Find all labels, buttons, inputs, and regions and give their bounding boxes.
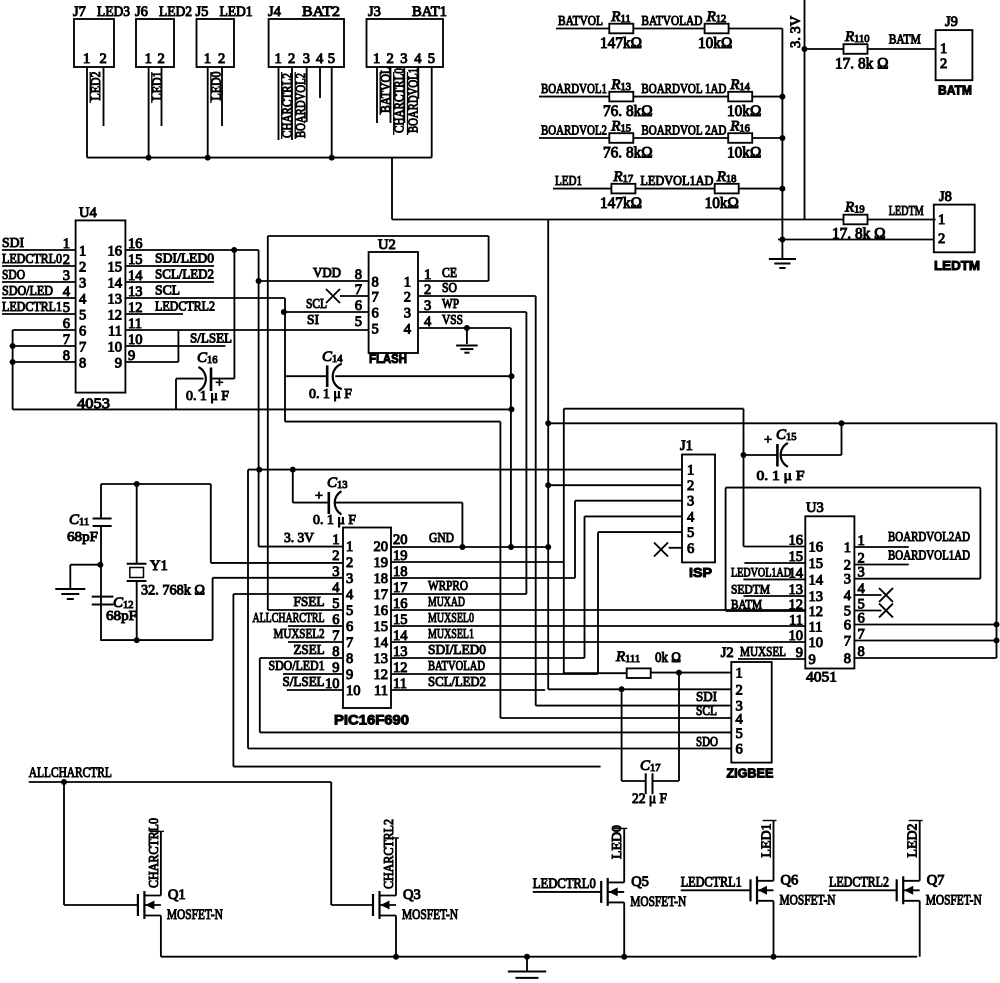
svg-text:MUXSEL2: MUXSEL2 <box>274 626 325 641</box>
svg-text:ISP: ISP <box>689 565 712 580</box>
svg-text:SDO: SDO <box>2 267 25 282</box>
svg-text:6: 6 <box>372 306 379 322</box>
svg-text:2: 2 <box>736 682 743 698</box>
svg-text:2: 2 <box>940 56 947 72</box>
svg-text:0. 1 μ F: 0. 1 μ F <box>186 389 229 404</box>
svg-text:4: 4 <box>404 322 412 338</box>
svg-text:LEDCTRL0: LEDCTRL0 <box>533 876 596 892</box>
svg-text:7: 7 <box>372 290 379 306</box>
svg-text:13: 13 <box>809 589 824 605</box>
svg-text:1: 1 <box>83 51 90 67</box>
svg-text:BOARDVOL2AD: BOARDVOL2AD <box>888 529 970 544</box>
svg-text:6: 6 <box>687 541 694 557</box>
svg-text:SO: SO <box>442 280 457 295</box>
svg-text:19: 19 <box>374 555 389 571</box>
svg-text:GND: GND <box>429 530 454 545</box>
svg-text:FSEL: FSEL <box>294 594 325 609</box>
svg-text:147kΩ: 147kΩ <box>600 195 642 212</box>
svg-text:BAT1: BAT1 <box>412 4 447 20</box>
svg-text:LED1: LED1 <box>760 824 775 858</box>
svg-text:2: 2 <box>387 51 394 67</box>
svg-text:LED0: LED0 <box>210 72 225 101</box>
svg-text:0k Ω: 0k Ω <box>655 650 681 666</box>
svg-text:MUXAD: MUXAD <box>428 594 465 609</box>
svg-text:BATVOL: BATVOL <box>558 13 603 28</box>
svg-text:11: 11 <box>809 620 823 636</box>
svg-text:9: 9 <box>809 652 816 668</box>
svg-text:0. 1 μ F: 0. 1 μ F <box>309 387 352 402</box>
svg-text:1: 1 <box>940 41 947 57</box>
svg-text:147kΩ: 147kΩ <box>600 35 642 52</box>
svg-text:SDI/LED0: SDI/LED0 <box>155 251 214 266</box>
svg-text:6: 6 <box>79 324 86 340</box>
svg-text:LED2: LED2 <box>89 72 104 101</box>
svg-text:LEDCTRL1: LEDCTRL1 <box>2 299 62 314</box>
svg-text:5: 5 <box>736 726 743 742</box>
svg-text:SDO/LED1: SDO/LED1 <box>269 658 325 673</box>
svg-text:MOSFET-N: MOSFET-N <box>167 907 223 923</box>
svg-text:SCL: SCL <box>155 283 180 298</box>
svg-text:14: 14 <box>374 635 389 651</box>
svg-text:SDO: SDO <box>696 734 718 749</box>
svg-text:3: 3 <box>303 51 310 67</box>
svg-text:LEDVOL1AD: LEDVOL1AD <box>640 173 713 188</box>
svg-text:BOARDVOL1AD: BOARDVOL1AD <box>888 548 970 563</box>
svg-text:10kΩ: 10kΩ <box>727 145 761 162</box>
svg-text:VSS: VSS <box>442 312 463 327</box>
svg-text:4051: 4051 <box>806 670 837 686</box>
svg-text:BOARDVOL2: BOARDVOL2 <box>294 73 309 138</box>
svg-text:10: 10 <box>809 635 824 651</box>
svg-text:17. 8k Ω: 17. 8k Ω <box>835 56 888 73</box>
svg-text:3. 3V: 3. 3V <box>284 530 314 545</box>
svg-text:BOARDVOL1: BOARDVOL1 <box>406 68 421 133</box>
svg-text:2: 2 <box>346 555 353 571</box>
svg-text:LEDCTRL2: LEDCTRL2 <box>155 299 215 314</box>
svg-text:LED1: LED1 <box>220 4 253 20</box>
svg-text:J4: J4 <box>268 4 282 20</box>
svg-text:1: 1 <box>373 51 380 67</box>
svg-text:SDI: SDI <box>696 689 717 704</box>
svg-text:5: 5 <box>428 51 435 67</box>
svg-text:5: 5 <box>346 603 353 619</box>
svg-text:U4: U4 <box>79 205 97 221</box>
svg-text:BOARDVOL2: BOARDVOL2 <box>541 123 607 138</box>
svg-text:Q1: Q1 <box>168 887 186 903</box>
svg-text:BATVOLAD: BATVOLAD <box>641 13 702 28</box>
svg-text:10: 10 <box>789 628 804 644</box>
svg-text:LEDTM: LEDTM <box>889 203 924 218</box>
svg-text:76. 8kΩ: 76. 8kΩ <box>603 145 653 162</box>
svg-text:2: 2 <box>288 51 295 67</box>
svg-text:CHARCTRL0: CHARCTRL0 <box>147 818 162 888</box>
svg-text:1: 1 <box>332 532 339 548</box>
svg-text:5: 5 <box>79 308 86 324</box>
svg-text:MUXSEL0: MUXSEL0 <box>428 610 474 625</box>
svg-text:15: 15 <box>374 619 389 635</box>
svg-text:68pF: 68pF <box>67 530 98 545</box>
svg-text:1: 1 <box>938 212 945 228</box>
svg-text:4: 4 <box>687 509 695 525</box>
svg-text:4: 4 <box>79 292 87 308</box>
svg-text:2: 2 <box>332 548 339 564</box>
svg-text:3: 3 <box>346 571 353 587</box>
svg-text:LED2: LED2 <box>159 4 192 20</box>
svg-text:2: 2 <box>404 290 411 306</box>
svg-text:16: 16 <box>108 244 123 260</box>
svg-text:LED0: LED0 <box>610 825 625 859</box>
svg-text:LEDTM: LEDTM <box>934 258 980 273</box>
svg-text:SDI/LED0: SDI/LED0 <box>428 642 486 657</box>
svg-text:ALLCHARCTRL: ALLCHARCTRL <box>253 610 325 625</box>
svg-text:SDO/LED: SDO/LED <box>2 283 53 298</box>
svg-text:5: 5 <box>332 596 339 612</box>
svg-text:11: 11 <box>374 683 388 699</box>
svg-text:2: 2 <box>218 51 225 67</box>
svg-text:2: 2 <box>938 231 945 247</box>
svg-text:MUXSEL1: MUXSEL1 <box>428 626 474 641</box>
svg-text:0. 1 μ F: 0. 1 μ F <box>757 469 805 484</box>
svg-text:BOARDVOL 2AD: BOARDVOL 2AD <box>641 123 726 138</box>
svg-text:2: 2 <box>100 51 107 67</box>
svg-text:6: 6 <box>844 618 851 634</box>
svg-text:J3: J3 <box>368 4 381 20</box>
svg-text:LEDCTRL0: LEDCTRL0 <box>2 251 62 266</box>
svg-text:3: 3 <box>844 572 851 588</box>
svg-text:BATVOLAD: BATVOLAD <box>428 658 485 673</box>
svg-text:J6: J6 <box>135 4 148 20</box>
svg-text:8: 8 <box>844 651 851 667</box>
svg-text:8: 8 <box>372 275 379 291</box>
svg-text:13: 13 <box>108 292 123 308</box>
svg-text:CE: CE <box>442 265 457 280</box>
svg-text:BATM: BATM <box>889 32 921 47</box>
svg-text:6: 6 <box>346 619 353 635</box>
svg-text:1: 1 <box>844 540 851 556</box>
svg-text:BOARDVOL1: BOARDVOL1 <box>541 81 607 96</box>
svg-text:1: 1 <box>736 666 743 682</box>
svg-text:3: 3 <box>404 306 411 322</box>
svg-text:17: 17 <box>374 587 389 603</box>
svg-text:12: 12 <box>374 667 389 683</box>
svg-text:Y1: Y1 <box>150 558 168 574</box>
svg-text:10kΩ: 10kΩ <box>698 35 732 52</box>
svg-text:+: + <box>764 433 772 448</box>
svg-text:Q5: Q5 <box>631 874 649 890</box>
svg-text:3: 3 <box>332 564 339 580</box>
svg-text:12: 12 <box>108 308 123 324</box>
svg-text:10: 10 <box>108 340 123 356</box>
svg-text:J2: J2 <box>721 645 734 661</box>
svg-text:SCL/LED2: SCL/LED2 <box>428 674 486 689</box>
svg-text:20: 20 <box>374 539 389 555</box>
svg-text:4: 4 <box>316 51 324 67</box>
svg-text:FLASH: FLASH <box>369 352 407 366</box>
svg-text:10kΩ: 10kΩ <box>705 195 739 212</box>
svg-text:MOSFET-N: MOSFET-N <box>780 892 836 908</box>
svg-text:LED1: LED1 <box>555 173 582 188</box>
svg-text:SCL: SCL <box>306 296 327 311</box>
svg-text:15: 15 <box>809 556 824 572</box>
svg-text:13: 13 <box>374 651 389 667</box>
svg-text:1: 1 <box>346 539 353 555</box>
svg-text:3. 3V: 3. 3V <box>788 15 804 48</box>
svg-text:14: 14 <box>809 572 824 588</box>
svg-text:MUXSEL: MUXSEL <box>740 644 786 659</box>
svg-text:68pF: 68pF <box>106 609 137 624</box>
svg-text:3: 3 <box>687 494 694 510</box>
svg-text:WRPRO: WRPRO <box>428 578 468 593</box>
svg-text:15: 15 <box>108 260 123 276</box>
svg-text:CHARCTRL2: CHARCTRL2 <box>382 819 397 889</box>
svg-text:MOSFET-N: MOSFET-N <box>926 892 982 908</box>
svg-text:LEDVOL1AD: LEDVOL1AD <box>731 565 791 580</box>
svg-text:5: 5 <box>372 322 379 338</box>
svg-text:17: 17 <box>393 580 408 596</box>
svg-text:MOSFET-N: MOSFET-N <box>402 907 458 923</box>
svg-text:S/LSEL: S/LSEL <box>190 331 232 346</box>
svg-text:S/LSEL: S/LSEL <box>283 674 325 689</box>
svg-text:18: 18 <box>374 571 389 587</box>
svg-text:CHARCTRL0: CHARCTRL0 <box>393 68 408 133</box>
svg-text:8: 8 <box>346 651 353 667</box>
svg-text:9: 9 <box>346 667 353 683</box>
svg-text:17. 8k Ω: 17. 8k Ω <box>832 225 885 242</box>
svg-text:8: 8 <box>79 356 86 372</box>
svg-text:U2: U2 <box>378 237 396 253</box>
svg-text:BOARDVOL 1AD: BOARDVOL 1AD <box>641 81 726 96</box>
svg-text:7: 7 <box>79 340 86 356</box>
svg-text:1: 1 <box>404 275 411 291</box>
svg-text:SCL: SCL <box>696 703 717 718</box>
svg-text:J1: J1 <box>680 438 693 454</box>
svg-text:0. 1 μ F: 0. 1 μ F <box>313 513 356 528</box>
svg-text:32. 768k Ω: 32. 768k Ω <box>141 583 205 599</box>
svg-text:2: 2 <box>158 51 165 67</box>
svg-text:BATM: BATM <box>938 83 972 98</box>
svg-text:J7: J7 <box>73 4 86 20</box>
svg-text:BATM: BATM <box>731 597 762 612</box>
svg-text:1: 1 <box>145 51 152 67</box>
svg-text:9: 9 <box>115 356 122 372</box>
svg-text:14: 14 <box>108 276 123 292</box>
svg-text:J8: J8 <box>939 189 952 205</box>
svg-text:PIC16F690: PIC16F690 <box>334 713 409 728</box>
svg-text:7: 7 <box>844 634 851 650</box>
svg-text:J5: J5 <box>196 4 209 20</box>
svg-text:16: 16 <box>809 540 824 556</box>
svg-text:ZSEL: ZSEL <box>294 642 325 657</box>
svg-text:1: 1 <box>204 51 211 67</box>
svg-text:SDI: SDI <box>2 235 24 250</box>
svg-text:11: 11 <box>108 324 122 340</box>
svg-text:16: 16 <box>374 603 389 619</box>
svg-text:J9: J9 <box>945 14 958 30</box>
svg-text:1: 1 <box>79 244 86 260</box>
svg-text:5: 5 <box>328 51 335 67</box>
svg-text:20: 20 <box>393 532 408 548</box>
svg-text:5: 5 <box>355 314 362 330</box>
svg-text:VDD: VDD <box>313 265 341 280</box>
svg-text:2: 2 <box>687 478 694 494</box>
svg-text:WP: WP <box>442 296 459 311</box>
svg-text:ZIGBEE: ZIGBEE <box>726 766 773 781</box>
svg-text:LED2: LED2 <box>906 824 921 858</box>
svg-text:6: 6 <box>736 742 743 758</box>
svg-text:4: 4 <box>844 588 852 604</box>
svg-text:2: 2 <box>79 260 86 276</box>
svg-text:SI: SI <box>307 312 319 327</box>
svg-text:LED1: LED1 <box>151 72 166 101</box>
svg-text:SEDTM: SEDTM <box>731 582 770 597</box>
svg-text:1: 1 <box>687 462 694 478</box>
svg-text:5: 5 <box>687 525 694 541</box>
svg-text:SCL/LED2: SCL/LED2 <box>155 267 214 282</box>
svg-text:4: 4 <box>346 587 354 603</box>
svg-text:MOSFET-N: MOSFET-N <box>630 894 686 910</box>
svg-text:10: 10 <box>346 683 361 699</box>
svg-text:7: 7 <box>346 635 353 651</box>
svg-text:LEDCTRL2: LEDCTRL2 <box>829 875 889 891</box>
svg-text:1: 1 <box>275 51 282 67</box>
svg-text:Q6: Q6 <box>781 872 799 888</box>
svg-text:11: 11 <box>789 613 803 629</box>
svg-text:Q3: Q3 <box>403 887 421 903</box>
svg-text:22 μ F: 22 μ F <box>632 791 667 807</box>
svg-text:3: 3 <box>400 51 407 67</box>
svg-text:LED3: LED3 <box>97 4 130 20</box>
svg-text:ALLCHARCTRL: ALLCHARCTRL <box>29 765 112 781</box>
svg-text:U3: U3 <box>806 500 824 516</box>
svg-text:BAT2: BAT2 <box>302 4 340 20</box>
svg-text:Q7: Q7 <box>927 872 945 888</box>
svg-text:LEDCTRL1: LEDCTRL1 <box>681 875 742 891</box>
svg-text:12: 12 <box>809 604 824 620</box>
svg-text:4: 4 <box>414 51 422 67</box>
svg-text:3: 3 <box>79 276 86 292</box>
